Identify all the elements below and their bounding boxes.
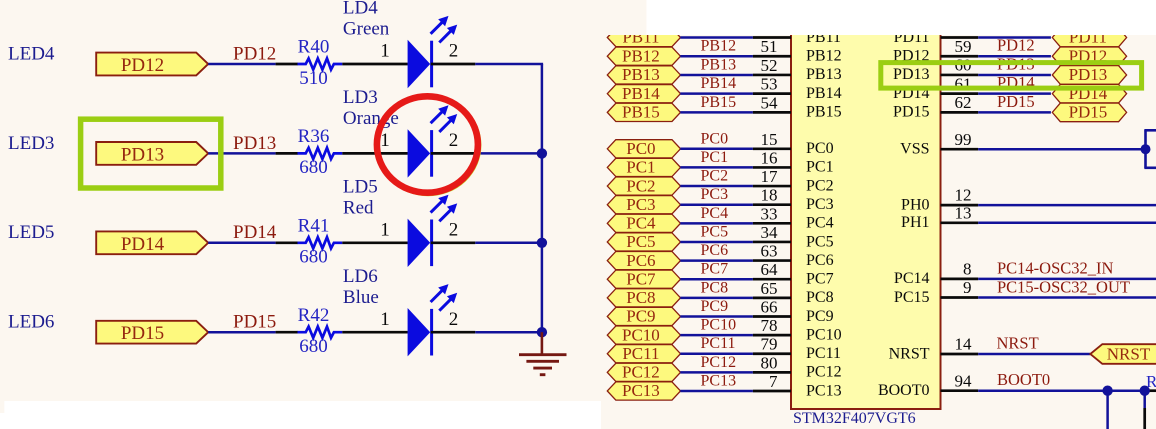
svg-text:66: 66 [761,297,778,316]
svg-text:PH0: PH0 [901,196,929,213]
pin PD12 [941,55,979,58]
pin of R below [1143,408,1146,429]
svg-text:PC11: PC11 [701,335,736,352]
svg-text:7: 7 [769,372,778,391]
svg-text:PC14: PC14 [894,270,930,287]
port PD15 [1052,103,1126,122]
svg-text:R41: R41 [298,216,330,237]
svg-text:PC1: PC1 [701,149,729,166]
svg-text:13: 13 [955,203,972,222]
pin PH1 [941,221,979,224]
port NRST [1090,344,1156,364]
wire cathode bus [541,64,544,332]
svg-text:LED3: LED3 [8,133,54,154]
pin PC14 [941,278,979,281]
svg-text:1: 1 [380,41,390,62]
port PC9 [607,307,680,325]
wire resistor to LED [342,63,408,66]
port PC12 [607,363,680,381]
svg-text:33: 33 [761,204,778,223]
svg-text:PD13: PD13 [893,66,929,83]
pin PB14 [753,92,791,95]
svg-text:PD15: PD15 [997,92,1035,111]
svg-text:PC7: PC7 [806,271,834,288]
svg-text:PC7: PC7 [701,261,729,278]
svg-text:LED6: LED6 [8,312,54,333]
svg-text:PC12: PC12 [622,363,660,382]
svg-text:PB15: PB15 [622,103,660,122]
pin PC3 [753,203,791,206]
svg-text:680: 680 [299,157,328,178]
port PB14 [607,85,680,103]
wire PC3 [680,203,753,206]
pin PC6 [753,259,791,262]
port PB12 [607,47,680,65]
wire PB13 [680,74,753,77]
svg-text:PC15-OSC32_OUT: PC15-OSC32_OUT [997,277,1130,296]
port PC5 [607,233,680,251]
pin PD11 [941,36,979,39]
wire into resistor [276,152,298,155]
svg-text:BOOT0: BOOT0 [997,370,1050,389]
svg-text:VSS: VSS [900,141,929,158]
svg-text:PC2: PC2 [701,168,729,185]
svg-text:PC12: PC12 [806,364,842,381]
svg-text:2: 2 [449,130,459,151]
port PD13 [96,142,208,165]
wire PC14 [978,278,1156,281]
wire PD15 [978,111,1051,114]
pin PC4 [753,222,791,225]
pin PH0 [941,204,979,207]
svg-text:PC9: PC9 [701,298,729,315]
svg-text:PB15: PB15 [701,94,737,111]
wire PC7 [680,278,753,281]
port PC1 [607,158,680,176]
wire down from BOOT0 junction [1106,391,1109,429]
pin PC13 [753,390,791,393]
port PB13 [607,66,680,84]
svg-text:680: 680 [299,247,328,268]
pin PC1 [753,166,791,169]
svg-text:PC5: PC5 [701,223,729,240]
svg-text:1: 1 [380,219,390,240]
svg-text:PC0: PC0 [626,139,655,158]
svg-text:9: 9 [963,278,972,297]
svg-text:PC8: PC8 [701,279,729,296]
port PC8 [607,289,680,307]
svg-text:62: 62 [955,93,972,112]
port PC4 [607,214,680,232]
svg-text:LED5: LED5 [8,222,54,243]
svg-text:PB13: PB13 [806,66,842,83]
pin PC2 [753,185,791,188]
svg-text:NRST: NRST [997,334,1039,353]
svg-text:PC9: PC9 [806,308,834,325]
pin PD15 [941,111,979,114]
port PB11 [607,28,680,46]
svg-text:PC13: PC13 [806,382,842,399]
svg-text:PC4: PC4 [701,205,729,222]
svg-text:PC11: PC11 [622,344,659,363]
svg-text:Red: Red [343,198,374,219]
wire PB15 [680,111,753,114]
svg-text:LD3: LD3 [343,87,378,108]
svg-text:12: 12 [955,186,972,205]
svg-text:63: 63 [761,242,778,261]
svg-text:99: 99 [955,130,972,149]
pin PB15 [753,111,791,114]
svg-text:PC8: PC8 [626,288,655,307]
wire PC13 [680,390,753,393]
svg-text:PC6: PC6 [626,251,655,270]
pin PC12 [753,371,791,374]
svg-text:PC10: PC10 [701,317,737,334]
svg-text:PC5: PC5 [626,232,655,251]
svg-text:LD4: LD4 [343,0,378,19]
port PC13 [607,382,680,400]
svg-text:PC13: PC13 [701,372,737,389]
svg-text:52: 52 [761,56,778,75]
VSS bracket [1144,130,1147,168]
svg-text:PC4: PC4 [806,215,834,232]
pin NRST [941,353,979,356]
LED arrows [431,201,442,212]
wire PH1 [978,222,1156,225]
svg-text:R36: R36 [298,126,330,147]
svg-text:510: 510 [299,68,328,89]
svg-text:NRST: NRST [889,345,930,362]
svg-text:680: 680 [299,336,328,357]
pin PC5 [753,241,791,244]
svg-text:PD15: PD15 [893,104,929,121]
svg-text:PC2: PC2 [626,176,655,195]
svg-text:PC13: PC13 [622,381,660,400]
svg-text:Green: Green [343,19,390,40]
svg-text:PC10: PC10 [806,326,842,343]
pin VSS [941,148,979,151]
svg-text:80: 80 [761,353,778,372]
resistor R36 680 [298,148,343,159]
svg-text:17: 17 [761,167,779,186]
pin PC8 [753,296,791,299]
wire PD14 net [208,242,275,245]
port PB15 [607,103,680,121]
wire PC11 [680,352,753,355]
svg-text:PD15: PD15 [233,312,276,333]
svg-text:PD15: PD15 [121,323,164,344]
LED arrows [431,112,442,123]
wire PC2 [680,185,753,188]
wire into resistor [276,331,298,334]
svg-text:PB15: PB15 [806,104,842,121]
svg-text:LD5: LD5 [343,177,378,198]
svg-text:PC11: PC11 [806,345,841,362]
resistor R41 680 [298,237,343,248]
wire to resistor R [1146,389,1156,392]
svg-text:PD14: PD14 [121,234,165,255]
svg-text:PC1: PC1 [806,159,834,176]
wire PC12 [680,371,753,374]
pin PB11 [753,36,791,39]
ground [541,332,544,354]
svg-text:PD12: PD12 [121,55,164,76]
pin PC0 [753,147,791,150]
svg-text:NRST: NRST [1107,345,1151,364]
svg-text:2: 2 [449,219,459,240]
svg-text:53: 53 [761,75,778,94]
port PD14 [96,231,208,254]
svg-text:8: 8 [963,260,972,279]
svg-text:STM32F407VGT6: STM32F407VGT6 [793,410,916,427]
svg-text:PC2: PC2 [806,177,834,194]
svg-text:PB12: PB12 [622,46,660,65]
port PD14 [1052,84,1126,103]
svg-text:PC8: PC8 [806,289,834,306]
svg-text:PC15: PC15 [894,289,930,306]
wire PC6 [680,259,753,262]
svg-text:PC12: PC12 [701,354,737,371]
wire VSS [978,148,1145,151]
svg-text:16: 16 [761,148,778,167]
port PD15 [96,321,208,344]
svg-text:2: 2 [449,41,459,62]
wire LED to bus [431,241,476,244]
wire LED to bus [431,331,476,334]
LED arrows [431,291,442,302]
wire PC15 [978,296,1156,299]
svg-text:PC7: PC7 [626,269,656,288]
svg-text:14: 14 [955,335,973,354]
port PC6 [607,251,680,269]
svg-text:PC3: PC3 [701,186,729,203]
wire PC0 [680,148,753,151]
resistor R40 510 [298,58,343,69]
port PD12 [96,53,208,76]
port PC10 [607,326,680,344]
svg-text:PC3: PC3 [626,195,655,214]
wire resistor to LED [342,241,408,244]
svg-text:PC14-OSC32_IN: PC14-OSC32_IN [997,259,1114,278]
pin PB13 [753,74,791,77]
svg-text:PD13: PD13 [233,133,276,154]
wire into resistor [276,241,298,244]
wire PB14 [680,92,753,95]
svg-text:2: 2 [449,309,459,330]
IC U1 body STM32F407VGT6 [791,20,941,409]
svg-text:PC0: PC0 [701,130,729,147]
port PC0 [607,140,680,158]
port PD13 [1052,66,1126,85]
port PD12 [1052,47,1126,66]
svg-text:PD12: PD12 [233,43,276,64]
port PC7 [607,270,680,288]
annotation lime circle [377,96,479,194]
svg-text:BOOT0: BOOT0 [878,382,930,399]
port PD11 [1052,28,1126,47]
svg-text:PB14: PB14 [806,85,842,102]
svg-text:78: 78 [761,316,778,335]
wire PD12 net [208,63,275,66]
wire PD14 [978,92,1051,95]
svg-text:PC1: PC1 [626,158,655,177]
svg-text:1: 1 [380,309,390,330]
wire PD15 net [208,331,275,334]
svg-text:R42: R42 [298,305,330,326]
annotation red circle LD3 [377,96,478,192]
wire PD13 [978,74,1051,77]
wire into resistor [276,63,298,66]
svg-text:PD13: PD13 [1069,65,1108,84]
svg-text:PH1: PH1 [901,214,929,231]
wire PC9 [680,315,753,318]
wire PC5 [680,241,753,244]
svg-text:PD15: PD15 [1069,103,1108,122]
svg-text:51: 51 [761,37,778,56]
svg-text:PB14: PB14 [701,75,737,92]
svg-text:34: 34 [761,223,779,242]
wire PD11 [978,36,1051,39]
svg-text:65: 65 [761,279,778,298]
pin PC7 [753,278,791,281]
pin PB12 [753,55,791,58]
pin PC9 [753,315,791,318]
wire resistor to LED [342,331,408,334]
port PC3 [607,196,680,214]
svg-text:PD13: PD13 [121,144,164,165]
svg-text:94: 94 [955,371,973,390]
wire PC8 [680,297,753,300]
svg-text:PC3: PC3 [806,196,834,213]
wire PC4 [680,222,753,225]
svg-text:PD14: PD14 [233,222,277,243]
wire PC10 [680,334,753,337]
svg-text:PC0: PC0 [806,140,834,157]
wire LED to bus [431,152,476,155]
svg-text:PB13: PB13 [622,65,660,84]
port PC2 [607,177,680,195]
wire PD12 [978,55,1051,58]
wire resistor to LED [342,152,408,155]
pin PC15 [941,296,979,299]
svg-text:PD12: PD12 [997,36,1035,55]
svg-text:18: 18 [761,186,778,205]
wire PB11 [680,36,753,39]
wire PC1 [680,166,753,169]
svg-text:64: 64 [761,260,779,279]
svg-text:PB12: PB12 [701,38,737,55]
wire PB12 [680,55,753,58]
svg-text:LD6: LD6 [343,266,378,287]
svg-text:PC4: PC4 [626,214,656,233]
annotation green rect PD13 pin [881,63,1142,89]
svg-text:PC6: PC6 [806,252,834,269]
svg-text:PB13: PB13 [701,56,737,73]
svg-text:PB14: PB14 [622,84,660,103]
svg-text:15: 15 [761,130,778,149]
pin PD13 [941,74,979,77]
svg-text:59: 59 [955,37,972,56]
wire NRST [978,353,1090,356]
wire PD13 net [208,152,275,155]
junction dots BOOT0 [1102,386,1112,396]
junction dots [537,148,547,158]
svg-text:1: 1 [380,130,390,151]
pin PC10 [753,334,791,337]
svg-text:PC6: PC6 [701,242,729,259]
wire LED to bus [431,63,476,66]
wire PH0 [978,204,1156,207]
svg-text:54: 54 [761,93,779,112]
svg-text:PB12: PB12 [806,48,842,65]
svg-text:PC9: PC9 [626,307,655,326]
wire BOOT0 [978,389,1146,392]
svg-text:79: 79 [761,335,778,354]
pin PC11 [753,352,791,355]
svg-text:R40: R40 [298,37,330,58]
svg-text:LED4: LED4 [8,43,55,64]
pin BOOT0 [941,389,979,392]
svg-text:Blue: Blue [343,287,379,308]
pin PD14 [941,92,979,95]
LED arrows [431,22,442,33]
svg-text:PC5: PC5 [806,233,834,250]
annotation green rect PD13 port [81,119,221,188]
port PC11 [607,345,680,363]
svg-text:PC10: PC10 [622,325,660,344]
resistor R42 680 [298,327,343,338]
